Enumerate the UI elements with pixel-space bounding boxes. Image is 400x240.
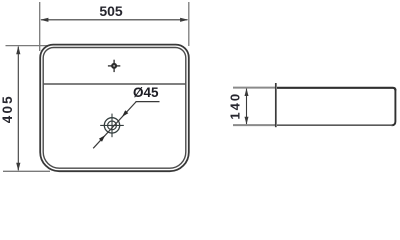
leader arrowhead upper (points to drain): [122, 110, 128, 117]
arrowhead 140 top: [245, 88, 249, 96]
leader arrowhead lower (points to drain): [99, 135, 105, 142]
extension line right (505 dim): [188, 2, 190, 46]
svg-text:405: 405: [0, 94, 15, 123]
basin inner rim outline: [43, 48, 186, 169]
drain crosshair horizontal: [100, 124, 124, 126]
drain target symbol inner circle: [108, 121, 117, 130]
svg-text:505: 505: [99, 3, 123, 19]
side view bottom: [277, 124, 393, 126]
faucet hole marker: [108, 60, 120, 72]
side view top surface extension: [233, 87, 276, 89]
side view bottom surface extension: [233, 124, 276, 126]
extension line left (505 dim): [39, 2, 41, 51]
side view right wall: [392, 90, 396, 126]
dimension line 405: [17, 47, 19, 171]
arrowhead 505 left: [40, 18, 48, 22]
dimension line 140: [246, 89, 248, 125]
drain target symbol outer circle: [104, 118, 119, 133]
extension line bottom (405 dim): [3, 170, 50, 172]
arrowhead 405 bottom: [16, 163, 20, 171]
arrowhead 505 right: [180, 18, 188, 22]
arrowhead 140 bottom: [245, 117, 249, 125]
basin deck line: [43, 83, 186, 85]
side view top rim: [277, 88, 395, 91]
basin outer outline (top view): [40, 45, 189, 172]
extension line top (405 dim): [6, 45, 49, 47]
svg-text:140: 140: [228, 92, 243, 120]
arrowhead 405 top: [16, 46, 20, 54]
svg-text:Ø45: Ø45: [133, 85, 159, 100]
drain crosshair vertical: [111, 114, 113, 138]
side view left edge: [275, 83, 277, 127]
leader diagonal line through drain: [93, 102, 136, 149]
leader shoulder under Ø45: [136, 101, 160, 103]
dimension line 505: [41, 19, 188, 21]
